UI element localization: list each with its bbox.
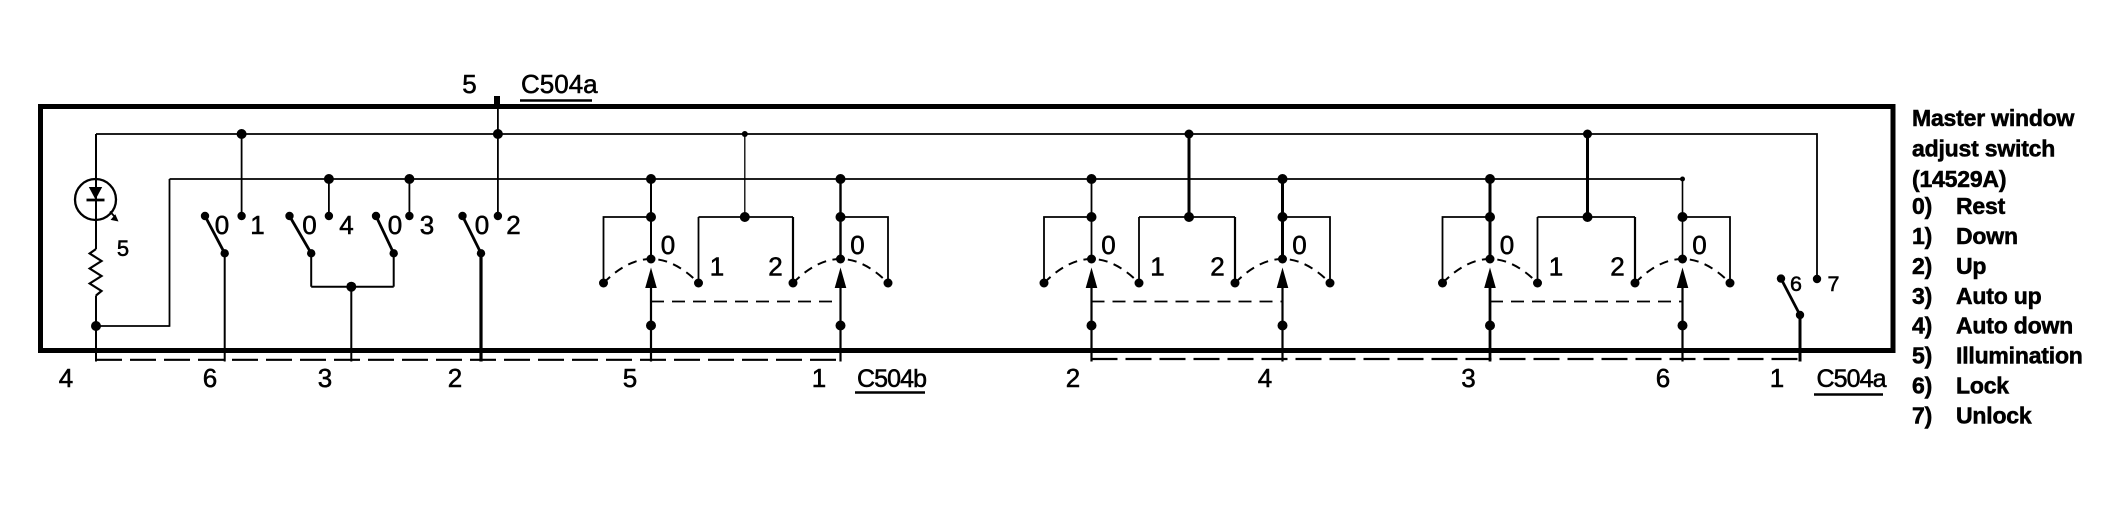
svg-text:C504a: C504a [521, 69, 598, 99]
svg-text:C504a: C504a [1817, 365, 1887, 393]
svg-text:Down: Down [1956, 223, 2018, 249]
svg-text:1): 1) [1912, 223, 1932, 249]
wire joining S2/S3 poles to pin 3 [311, 282, 394, 362]
svg-text:1: 1 [1150, 252, 1164, 282]
connector C504a label (bottom) [1814, 365, 1887, 395]
window switch B right rocker track [1231, 174, 1335, 288]
window switch C mechanical linkage [1490, 301, 1683, 303]
svg-text:2): 2) [1912, 253, 1932, 279]
svg-text:3: 3 [420, 210, 434, 240]
wire bus 2 [170, 178, 1684, 180]
svg-text:Up: Up [1956, 253, 1986, 279]
window switch C left rocker track [1438, 174, 1542, 288]
svg-text:(14529A): (14529A) [1912, 166, 2006, 192]
svg-text:Auto down: Auto down [1956, 313, 2073, 339]
svg-text:1: 1 [250, 210, 264, 240]
window switch A right rocker track [789, 174, 893, 288]
window switch B right wiper [1277, 268, 1289, 362]
svg-text:0: 0 [850, 230, 864, 260]
switch housing box [41, 107, 1894, 351]
window switch B position labels [1101, 230, 1306, 282]
svg-text:1: 1 [812, 363, 826, 393]
window switch A right wiper [835, 268, 847, 362]
window switch B mechanical linkage [1092, 301, 1283, 303]
svg-text:0: 0 [215, 210, 229, 240]
LED emission arrow [110, 212, 119, 222]
window switch B left rocker track [1040, 174, 1144, 288]
svg-text:0: 0 [661, 230, 675, 260]
connector C504b label [855, 365, 926, 393]
svg-text:5): 5) [1912, 343, 1932, 369]
window switch C common feed riser [1538, 130, 1636, 284]
svg-text:3: 3 [1461, 363, 1475, 393]
pin labels C504b [59, 363, 826, 393]
connector C504b dashed rail [96, 359, 841, 361]
svg-text:0: 0 [302, 210, 316, 240]
window switch C left wiper [1484, 268, 1496, 362]
svg-text:0: 0 [1500, 230, 1514, 260]
lock switch S1 (pin 6) [201, 129, 265, 362]
lock/unlock switch (pins 6,7 -> pin 1) [1777, 272, 1840, 362]
resistor (illumination dropping) [90, 249, 102, 296]
svg-text:Auto up: Auto up [1956, 283, 2042, 309]
svg-text:Unlock: Unlock [1956, 402, 2032, 428]
svg-text:4: 4 [59, 363, 73, 393]
svg-text:5: 5 [462, 69, 476, 99]
svg-text:Lock: Lock [1956, 373, 2009, 399]
svg-text:7): 7) [1912, 402, 1932, 428]
connector C504a pin 5 label [462, 69, 598, 101]
pin labels C504a [1066, 363, 1784, 393]
window switch A mechanical linkage [651, 301, 841, 303]
svg-text:6: 6 [1656, 363, 1670, 393]
window switch C right wiper [1677, 268, 1689, 362]
svg-text:0): 0) [1912, 193, 1932, 219]
svg-text:4: 4 [339, 210, 353, 240]
window switch A left rocker track [599, 174, 703, 288]
svg-text:1: 1 [710, 252, 724, 282]
legend: component name and positions [1912, 105, 2083, 429]
wire junction to bus 2 riser [96, 325, 170, 327]
svg-text:6: 6 [1790, 272, 1802, 296]
auto-down switch S2 (pin 3) [285, 174, 353, 287]
svg-text:6: 6 [203, 363, 217, 393]
window switch A position labels [661, 230, 865, 282]
wire bus 1 (illumination feed) [96, 134, 1817, 279]
connector C504a pin 5 stub [494, 96, 500, 109]
svg-text:6): 6) [1912, 373, 1932, 399]
auto-up switch S3 (pin 3) [372, 174, 434, 287]
lamp / LED illumination [75, 179, 116, 220]
svg-text:C504b: C504b [857, 365, 926, 393]
connector C504a dashed rail [1092, 358, 1801, 360]
window switch A common feed riser [699, 131, 794, 283]
window switch C position labels [1500, 230, 1707, 282]
window switch B common feed riser [1139, 130, 1235, 284]
svg-text:7: 7 [1828, 272, 1840, 296]
up switch S4 (pin 2) [458, 109, 520, 362]
svg-text:5: 5 [623, 363, 637, 393]
svg-text:2: 2 [1066, 363, 1080, 393]
svg-text:3): 3) [1912, 283, 1932, 309]
svg-text:0: 0 [1101, 230, 1115, 260]
svg-text:Illumination: Illumination [1956, 343, 2083, 369]
svg-text:Rest: Rest [1956, 193, 2006, 219]
svg-text:Master window: Master window [1912, 105, 2075, 131]
svg-text:5: 5 [117, 236, 129, 261]
svg-text:adjust switch: adjust switch [1912, 135, 2055, 161]
svg-text:2: 2 [448, 363, 462, 393]
svg-text:4: 4 [1258, 363, 1272, 393]
svg-text:0: 0 [1692, 230, 1706, 260]
svg-text:1: 1 [1549, 252, 1563, 282]
junction resistor bottom [91, 321, 101, 331]
window switch A left wiper [645, 268, 657, 362]
svg-text:2: 2 [506, 210, 520, 240]
svg-text:0: 0 [475, 210, 489, 240]
wire resistor to pin 4 [95, 296, 97, 362]
svg-text:1: 1 [1770, 363, 1784, 393]
svg-text:2: 2 [1210, 252, 1224, 282]
svg-text:0: 0 [1292, 230, 1306, 260]
window switch B left wiper [1086, 268, 1098, 362]
svg-text:4): 4) [1912, 313, 1932, 339]
svg-text:2: 2 [768, 252, 782, 282]
window switch C right rocker track [1631, 177, 1735, 288]
svg-text:2: 2 [1610, 252, 1624, 282]
wire lamp branch [95, 134, 97, 249]
svg-text:0: 0 [388, 210, 402, 240]
svg-text:3: 3 [318, 363, 332, 393]
